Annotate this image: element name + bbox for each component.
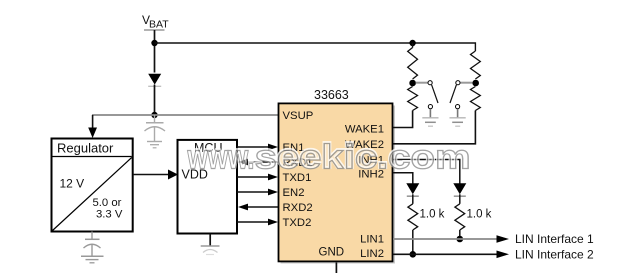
- switch S1: [416, 82, 428, 84]
- svg-text:LIN Interface 1: LIN Interface 1: [515, 232, 594, 246]
- wire into regulator with arrow: [92, 115, 94, 129]
- capacitor C1 to ground: [145, 115, 166, 148]
- svg-text:LIN Interface 2: LIN Interface 2: [515, 248, 594, 262]
- svg-text:33663: 33663: [314, 88, 349, 102]
- MCU ground: [209, 234, 211, 246]
- wire TXD1 MCU-33663: [237, 176, 269, 178]
- node junction LIN2: [410, 251, 417, 258]
- node junction rail/R1: [409, 40, 415, 46]
- svg-text:5.0 or: 5.0 or: [93, 197, 122, 209]
- resistor R4 1.0k: [408, 204, 418, 230]
- wire EN2 MCU-33663: [237, 191, 269, 193]
- diode D2: [453, 183, 466, 194]
- switch S2: [460, 82, 472, 84]
- wire VBAT vertical: [154, 30, 156, 73]
- wire LIN1 output: [393, 238, 497, 240]
- diode D1 series from VBAT: [148, 74, 161, 85]
- wire regulator to MCU VDD with arrow: [133, 174, 170, 176]
- svg-text:RXD2: RXD2: [283, 202, 313, 214]
- svg-text:VSUP: VSUP: [283, 110, 314, 122]
- wire INH1: [393, 160, 460, 184]
- wire chip GND stem: [335, 263, 337, 273]
- ground S1: [422, 117, 438, 119]
- svg-text:WAKE1: WAKE1: [345, 124, 384, 136]
- resistor R1 wake1 pullup: [408, 48, 418, 80]
- resistor R2b wake2 series: [471, 87, 481, 111]
- node junction R2/S2: [472, 80, 479, 87]
- node junction VSUP rail: [151, 112, 157, 118]
- svg-text:www.: www.: [187, 139, 255, 177]
- resistor R2 wake2 pullup: [471, 51, 481, 79]
- wire VBAT rail to switches: [155, 43, 476, 51]
- MCU block: [178, 140, 238, 234]
- wire LIN2 output: [393, 253, 497, 255]
- svg-text:1.0 k: 1.0 k: [467, 209, 492, 221]
- svg-text:LIN1: LIN1: [360, 234, 384, 246]
- svg-text:BAT: BAT: [149, 19, 169, 31]
- svg-text:Regulator: Regulator: [57, 141, 114, 156]
- svg-text:seekic.com: seekic.com: [255, 139, 471, 177]
- node junction VBAT rail: [151, 40, 157, 46]
- wire R4 to LIN2: [412, 230, 414, 254]
- svg-text:1.0 k: 1.0 k: [420, 209, 445, 221]
- diode D3: [406, 183, 419, 194]
- capacitor C2 regulator ground: [81, 232, 104, 263]
- svg-text:12 V: 12 V: [60, 177, 85, 191]
- wire RXD2 MCU-33663: [247, 206, 279, 208]
- wire EN1 MCU-33663: [237, 146, 269, 148]
- svg-text:GND: GND: [319, 247, 345, 259]
- wire to WAKE1: [393, 111, 413, 128]
- node junction LIN1: [457, 236, 464, 243]
- watermark www.seekic.com: [0, 0, 1, 1]
- wire to WAKE2: [393, 111, 475, 144]
- svg-text:TXD2: TXD2: [283, 217, 312, 229]
- svg-text:EN2: EN2: [283, 187, 305, 199]
- wire INH2: [393, 173, 413, 184]
- node junction R1/S1: [409, 80, 416, 87]
- ground S2: [450, 117, 466, 119]
- op-amp U1 33663 transceiver block: [281, 106, 396, 264]
- resistor R1b wake1 series: [408, 87, 418, 111]
- svg-text:3.3 V: 3.3 V: [96, 209, 123, 221]
- wire VSUP rail: [92, 114, 279, 116]
- regulator block: [52, 139, 133, 232]
- wire TXD2 MCU-33663: [237, 221, 269, 223]
- svg-text:LIN2: LIN2: [360, 248, 384, 260]
- wire R3 to LIN1: [459, 230, 461, 239]
- wire RXD1 MCU-33663: [247, 161, 279, 163]
- resistor R3 1.0k: [455, 204, 465, 230]
